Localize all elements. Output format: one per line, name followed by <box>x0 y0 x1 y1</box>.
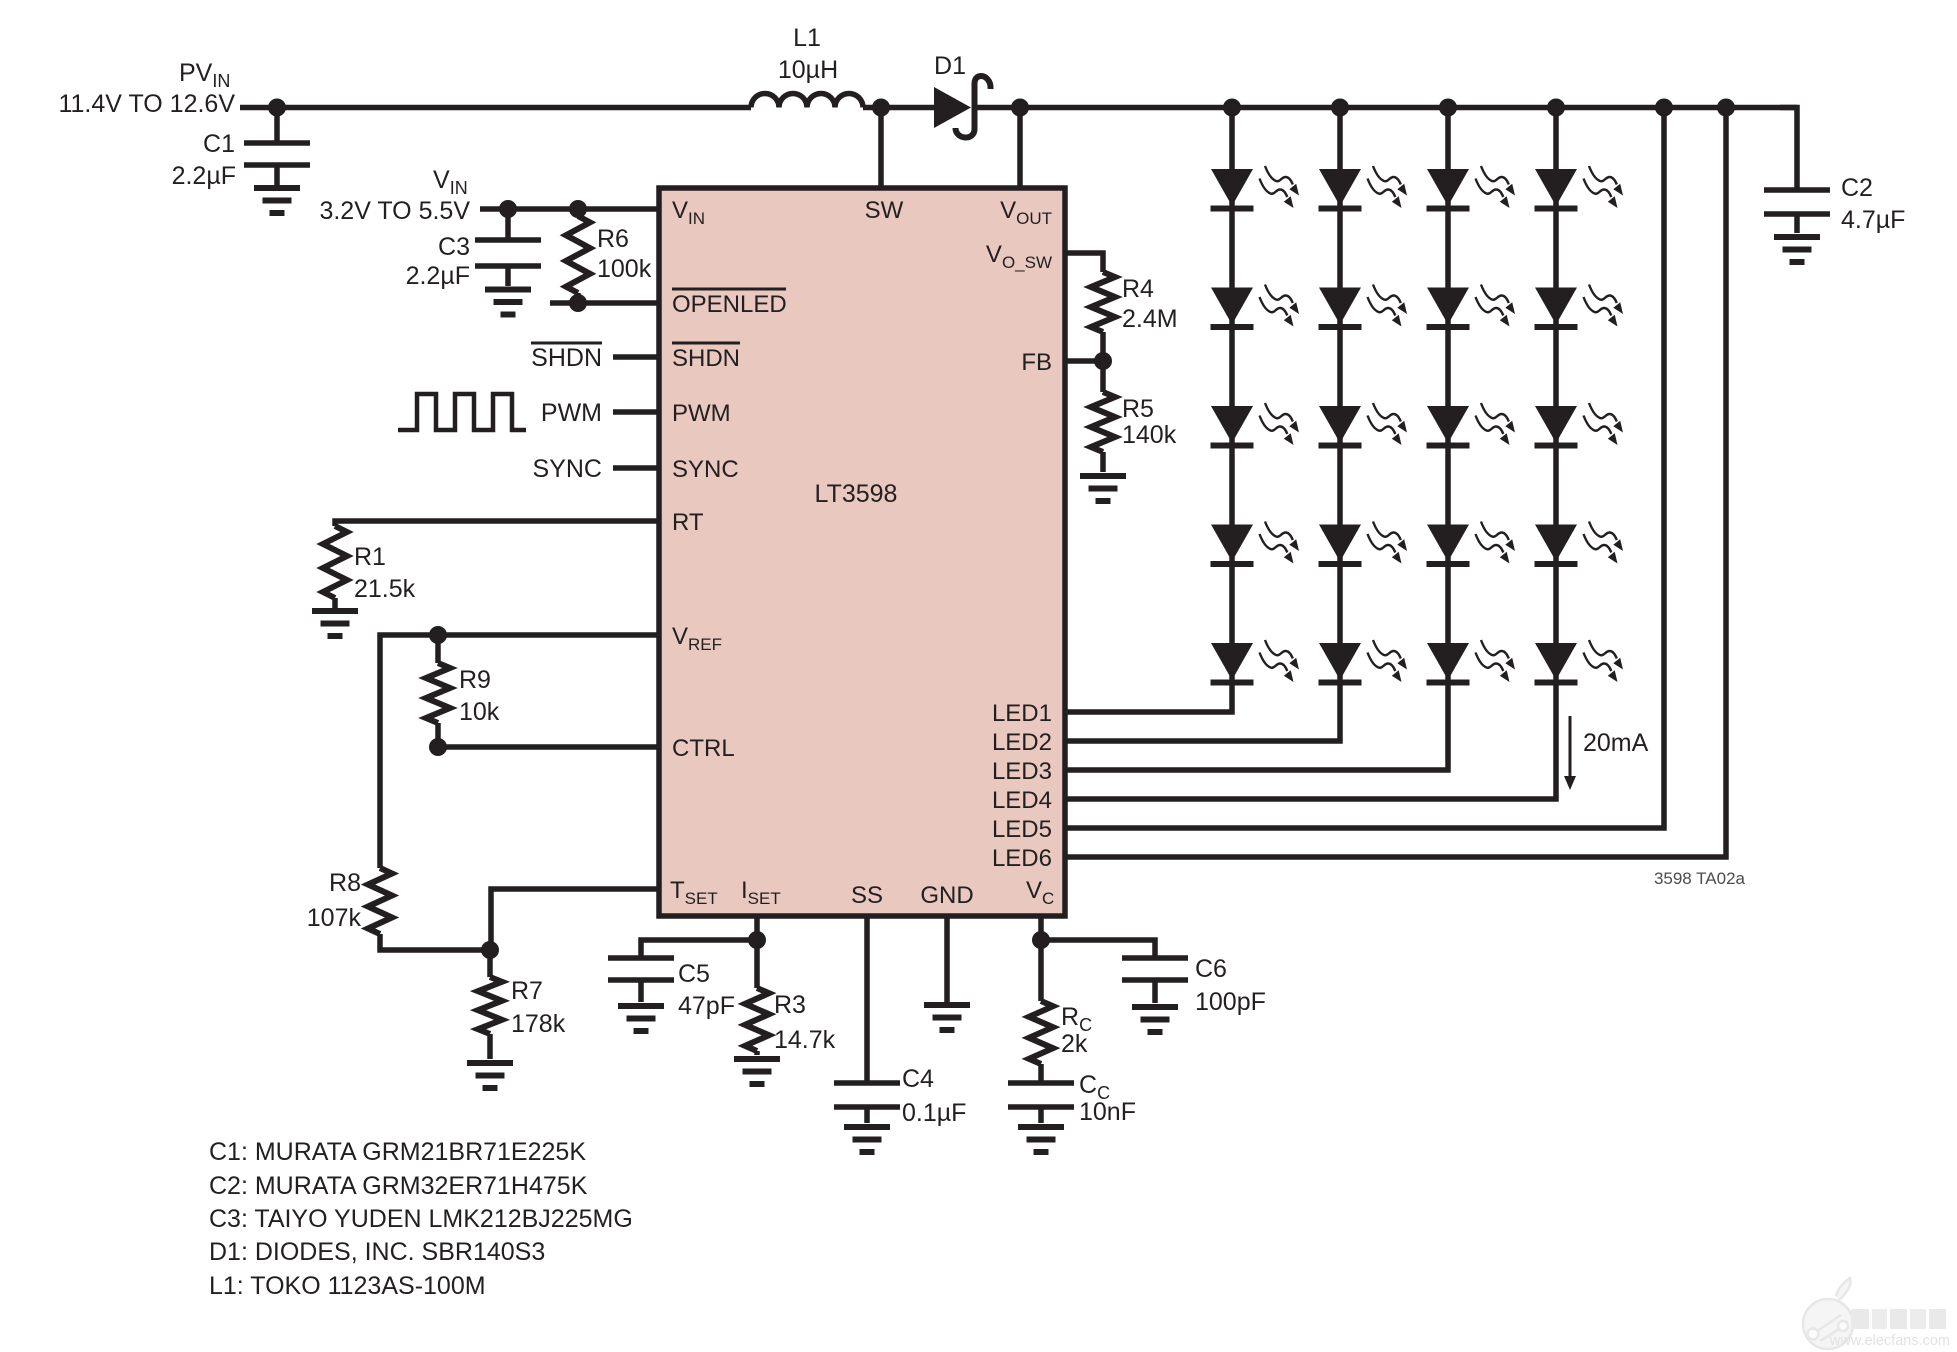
ground C1 <box>254 188 300 213</box>
LED D15 <box>1211 640 1300 683</box>
junction VIN/C3 <box>499 200 517 218</box>
svg-text:LED1: LED1 <box>992 700 1052 727</box>
resistor R4 <box>1091 272 1178 361</box>
wire VC drop <box>1038 916 1044 1001</box>
wire GND drop <box>944 916 950 1002</box>
op-amp U1 LT3598 IC body <box>659 188 1065 916</box>
wire LED column 1 <box>1065 108 1232 713</box>
svg-text:20mA: 20mA <box>1583 729 1649 757</box>
svg-text:2.2µF: 2.2µF <box>172 162 236 190</box>
svg-text:R8: R8 <box>329 869 361 897</box>
wire SS drop <box>864 916 870 1083</box>
wire TSET <box>491 889 659 950</box>
watermark text <box>1829 1309 1950 1349</box>
pin OPENLED <box>672 289 787 318</box>
svg-text:C5: C5 <box>678 960 710 988</box>
svg-text:2.2µF: 2.2µF <box>406 262 470 290</box>
svg-text:140k: 140k <box>1122 421 1177 449</box>
svg-text:10k: 10k <box>459 698 500 726</box>
svg-text:CTRL: CTRL <box>672 735 735 762</box>
LED D35 <box>1427 640 1516 683</box>
junction ISET <box>748 931 766 949</box>
svg-text:C1: MURATA GRM21BR71E225K: C1: MURATA GRM21BR71E225K <box>209 1138 586 1166</box>
junction R8/R7/TSET <box>481 941 499 959</box>
svg-text:R6: R6 <box>597 225 629 253</box>
node VIN input <box>319 166 470 225</box>
svg-text:2k: 2k <box>1061 1030 1088 1058</box>
LED D12 <box>1211 285 1300 328</box>
junction R9/CTRL <box>429 738 447 756</box>
wire LED column 2 <box>1065 108 1340 742</box>
ground C3 <box>485 290 531 315</box>
svg-text:L1: TOKO 1123AS-100M: L1: TOKO 1123AS-100M <box>209 1272 486 1300</box>
pin SHDN <box>672 343 740 372</box>
resistor R1 <box>323 526 416 608</box>
junction LED5 rail <box>1655 99 1673 117</box>
svg-text:100pF: 100pF <box>1195 988 1266 1016</box>
junction PVIN/C1 <box>268 99 286 117</box>
svg-text:3.2V TO 5.5V: 3.2V TO 5.5V <box>319 197 470 225</box>
svg-text:10µH: 10µH <box>778 56 838 84</box>
svg-text:14.7k: 14.7k <box>774 1026 836 1054</box>
svg-text:GND: GND <box>920 882 973 909</box>
wire PWM stub <box>613 409 659 415</box>
svg-text:SYNC: SYNC <box>533 455 602 483</box>
svg-text:OPENLED: OPENLED <box>672 291 787 318</box>
LED D34 <box>1427 522 1516 565</box>
svg-text:www.elecfans.com: www.elecfans.com <box>1829 1333 1950 1349</box>
svg-text:2.4M: 2.4M <box>1122 305 1178 333</box>
svg-text:21.5k: 21.5k <box>354 575 416 603</box>
LED D14 <box>1211 522 1300 565</box>
svg-text:107k: 107k <box>307 904 362 932</box>
svg-text:SYNC: SYNC <box>672 456 739 483</box>
ground R3 <box>734 1059 780 1084</box>
node SYNC external <box>533 455 602 483</box>
svg-text:11.4V TO 12.6V: 11.4V TO 12.6V <box>58 90 235 118</box>
watermark elecfans logo <box>1803 1278 1853 1349</box>
svg-text:PWM: PWM <box>541 399 602 427</box>
ground C4 <box>844 1127 890 1152</box>
capacitor C6 <box>1041 940 1266 1016</box>
svg-text:R9: R9 <box>459 666 491 694</box>
svg-text:178k: 178k <box>511 1010 566 1038</box>
ground C6 <box>1132 1007 1178 1032</box>
capacitor CC <box>1008 1071 1136 1126</box>
wire SHDN stub <box>613 354 659 360</box>
LED D33 <box>1427 403 1516 446</box>
resistor R6 <box>566 209 652 303</box>
node PVIN <box>58 59 235 118</box>
junction FB <box>1094 352 1112 370</box>
wire VIN <box>480 206 659 212</box>
junction LED column 1 top <box>1223 99 1241 117</box>
LED D42 <box>1535 285 1624 328</box>
ground R7 <box>467 1063 513 1088</box>
svg-text:C3: TAIYO YUDEN LMK212BJ225MG: C3: TAIYO YUDEN LMK212BJ225MG <box>209 1205 633 1233</box>
wire VOUT drop <box>1017 108 1023 189</box>
svg-text:C3: C3 <box>438 233 470 261</box>
capacitor C4 <box>834 1065 966 1127</box>
ground R1 <box>312 611 358 636</box>
LED D13 <box>1211 403 1300 446</box>
LED D41 <box>1535 166 1624 209</box>
svg-text:SHDN: SHDN <box>531 344 602 372</box>
svg-text:SS: SS <box>851 882 883 909</box>
svg-text:SW: SW <box>865 197 904 224</box>
LED D24 <box>1319 522 1408 565</box>
junction VC <box>1032 931 1050 949</box>
wire top rail left <box>240 105 751 111</box>
node PWM external <box>541 399 602 427</box>
resistor R8 <box>307 868 490 950</box>
inductor L1 <box>751 24 863 108</box>
svg-text:R4: R4 <box>1122 275 1154 303</box>
svg-text:3598 TA02a: 3598 TA02a <box>1654 869 1746 888</box>
wire ISET drop <box>754 916 760 988</box>
wire LED6 <box>1065 108 1726 858</box>
capacitor C2 <box>1764 108 1905 235</box>
svg-text:RT: RT <box>672 509 704 536</box>
svg-text:4.7µF: 4.7µF <box>1841 206 1905 234</box>
svg-text:10nF: 10nF <box>1079 1098 1136 1126</box>
svg-text:100k: 100k <box>597 255 652 283</box>
junction VREF/R9 <box>429 626 447 644</box>
ground C2 <box>1774 237 1820 262</box>
node SHDN external <box>531 343 602 372</box>
LED D11 <box>1211 166 1300 209</box>
LED D23 <box>1319 403 1408 446</box>
resistor R3 <box>745 988 836 1055</box>
junction LED column 2 top <box>1331 99 1349 117</box>
wire FB <box>1065 358 1103 364</box>
ground CC <box>1018 1127 1064 1152</box>
svg-text:D1: DIODES, INC. SBR140S3: D1: DIODES, INC. SBR140S3 <box>209 1238 545 1266</box>
svg-text:R3: R3 <box>774 991 806 1019</box>
wire VO_SW <box>1065 253 1103 272</box>
wire SW drop <box>878 108 884 189</box>
resistor RC <box>1029 1001 1092 1081</box>
junction R6/OPENLED <box>569 294 587 312</box>
wire LED column 3 <box>1065 108 1448 771</box>
ground R5 <box>1080 476 1126 501</box>
svg-text:C4: C4 <box>902 1065 934 1093</box>
svg-text:LT3598: LT3598 <box>815 480 898 508</box>
svg-text:D1: D1 <box>934 52 966 80</box>
LED D22 <box>1319 285 1408 328</box>
svg-text:R5: R5 <box>1122 395 1154 423</box>
wire LED5 <box>1065 108 1664 829</box>
wire rail right <box>974 105 1797 111</box>
capacitor C1 <box>172 108 310 191</box>
LED D21 <box>1319 166 1408 209</box>
svg-text:C1: C1 <box>203 130 235 158</box>
wire RT <box>335 521 659 526</box>
svg-text:SHDN: SHDN <box>672 345 740 372</box>
capacitor C5 <box>608 940 757 1020</box>
svg-text:LED4: LED4 <box>992 787 1052 814</box>
LED D44 <box>1535 522 1624 565</box>
current arrow 20mA <box>1564 716 1649 790</box>
junction after L1 / SW node <box>872 99 890 117</box>
wire SYNC stub <box>613 465 659 471</box>
svg-text:R1: R1 <box>354 543 386 571</box>
svg-text:C2: C2 <box>1841 174 1873 202</box>
LED D25 <box>1319 640 1408 683</box>
junction after D1 / VOUT node <box>1011 99 1029 117</box>
svg-text:LED5: LED5 <box>992 816 1052 843</box>
svg-text:C2: MURATA GRM32ER71H475K: C2: MURATA GRM32ER71H475K <box>209 1172 588 1200</box>
wire VREF <box>380 635 659 868</box>
wire CTRL <box>438 744 659 750</box>
resistor R7 <box>478 950 566 1059</box>
PWM square wave symbol <box>398 394 526 430</box>
resistor R5 <box>1091 361 1177 472</box>
ground C5 <box>618 1006 664 1031</box>
svg-text:47pF: 47pF <box>678 992 735 1020</box>
svg-text:C6: C6 <box>1195 955 1227 983</box>
svg-text:PWM: PWM <box>672 400 731 427</box>
junction LED column 4 top <box>1547 99 1565 117</box>
wire LED column 4 <box>1065 108 1556 800</box>
svg-text:LED6: LED6 <box>992 845 1052 872</box>
LED D43 <box>1535 403 1624 446</box>
resistor R9 <box>426 635 500 747</box>
svg-text:L1: L1 <box>793 24 821 52</box>
svg-text:LED2: LED2 <box>992 729 1052 756</box>
svg-text:0.1µF: 0.1µF <box>902 1099 966 1127</box>
capacitor C3 <box>406 209 541 290</box>
junction LED column 3 top <box>1439 99 1457 117</box>
wire rail mid <box>863 105 936 111</box>
diode D1 (schottky) <box>934 52 991 138</box>
LED D32 <box>1427 285 1516 328</box>
svg-text:FB: FB <box>1021 349 1052 376</box>
BOM notes <box>209 1138 633 1300</box>
LED D31 <box>1427 166 1516 209</box>
ground GND pin <box>924 1005 970 1030</box>
junction LED6 rail <box>1717 99 1735 117</box>
junction VIN/R6 <box>569 200 587 218</box>
LED D45 <box>1535 640 1624 683</box>
wire OPENLED <box>550 300 659 306</box>
svg-text:LED3: LED3 <box>992 758 1052 785</box>
svg-text:R7: R7 <box>511 977 543 1005</box>
